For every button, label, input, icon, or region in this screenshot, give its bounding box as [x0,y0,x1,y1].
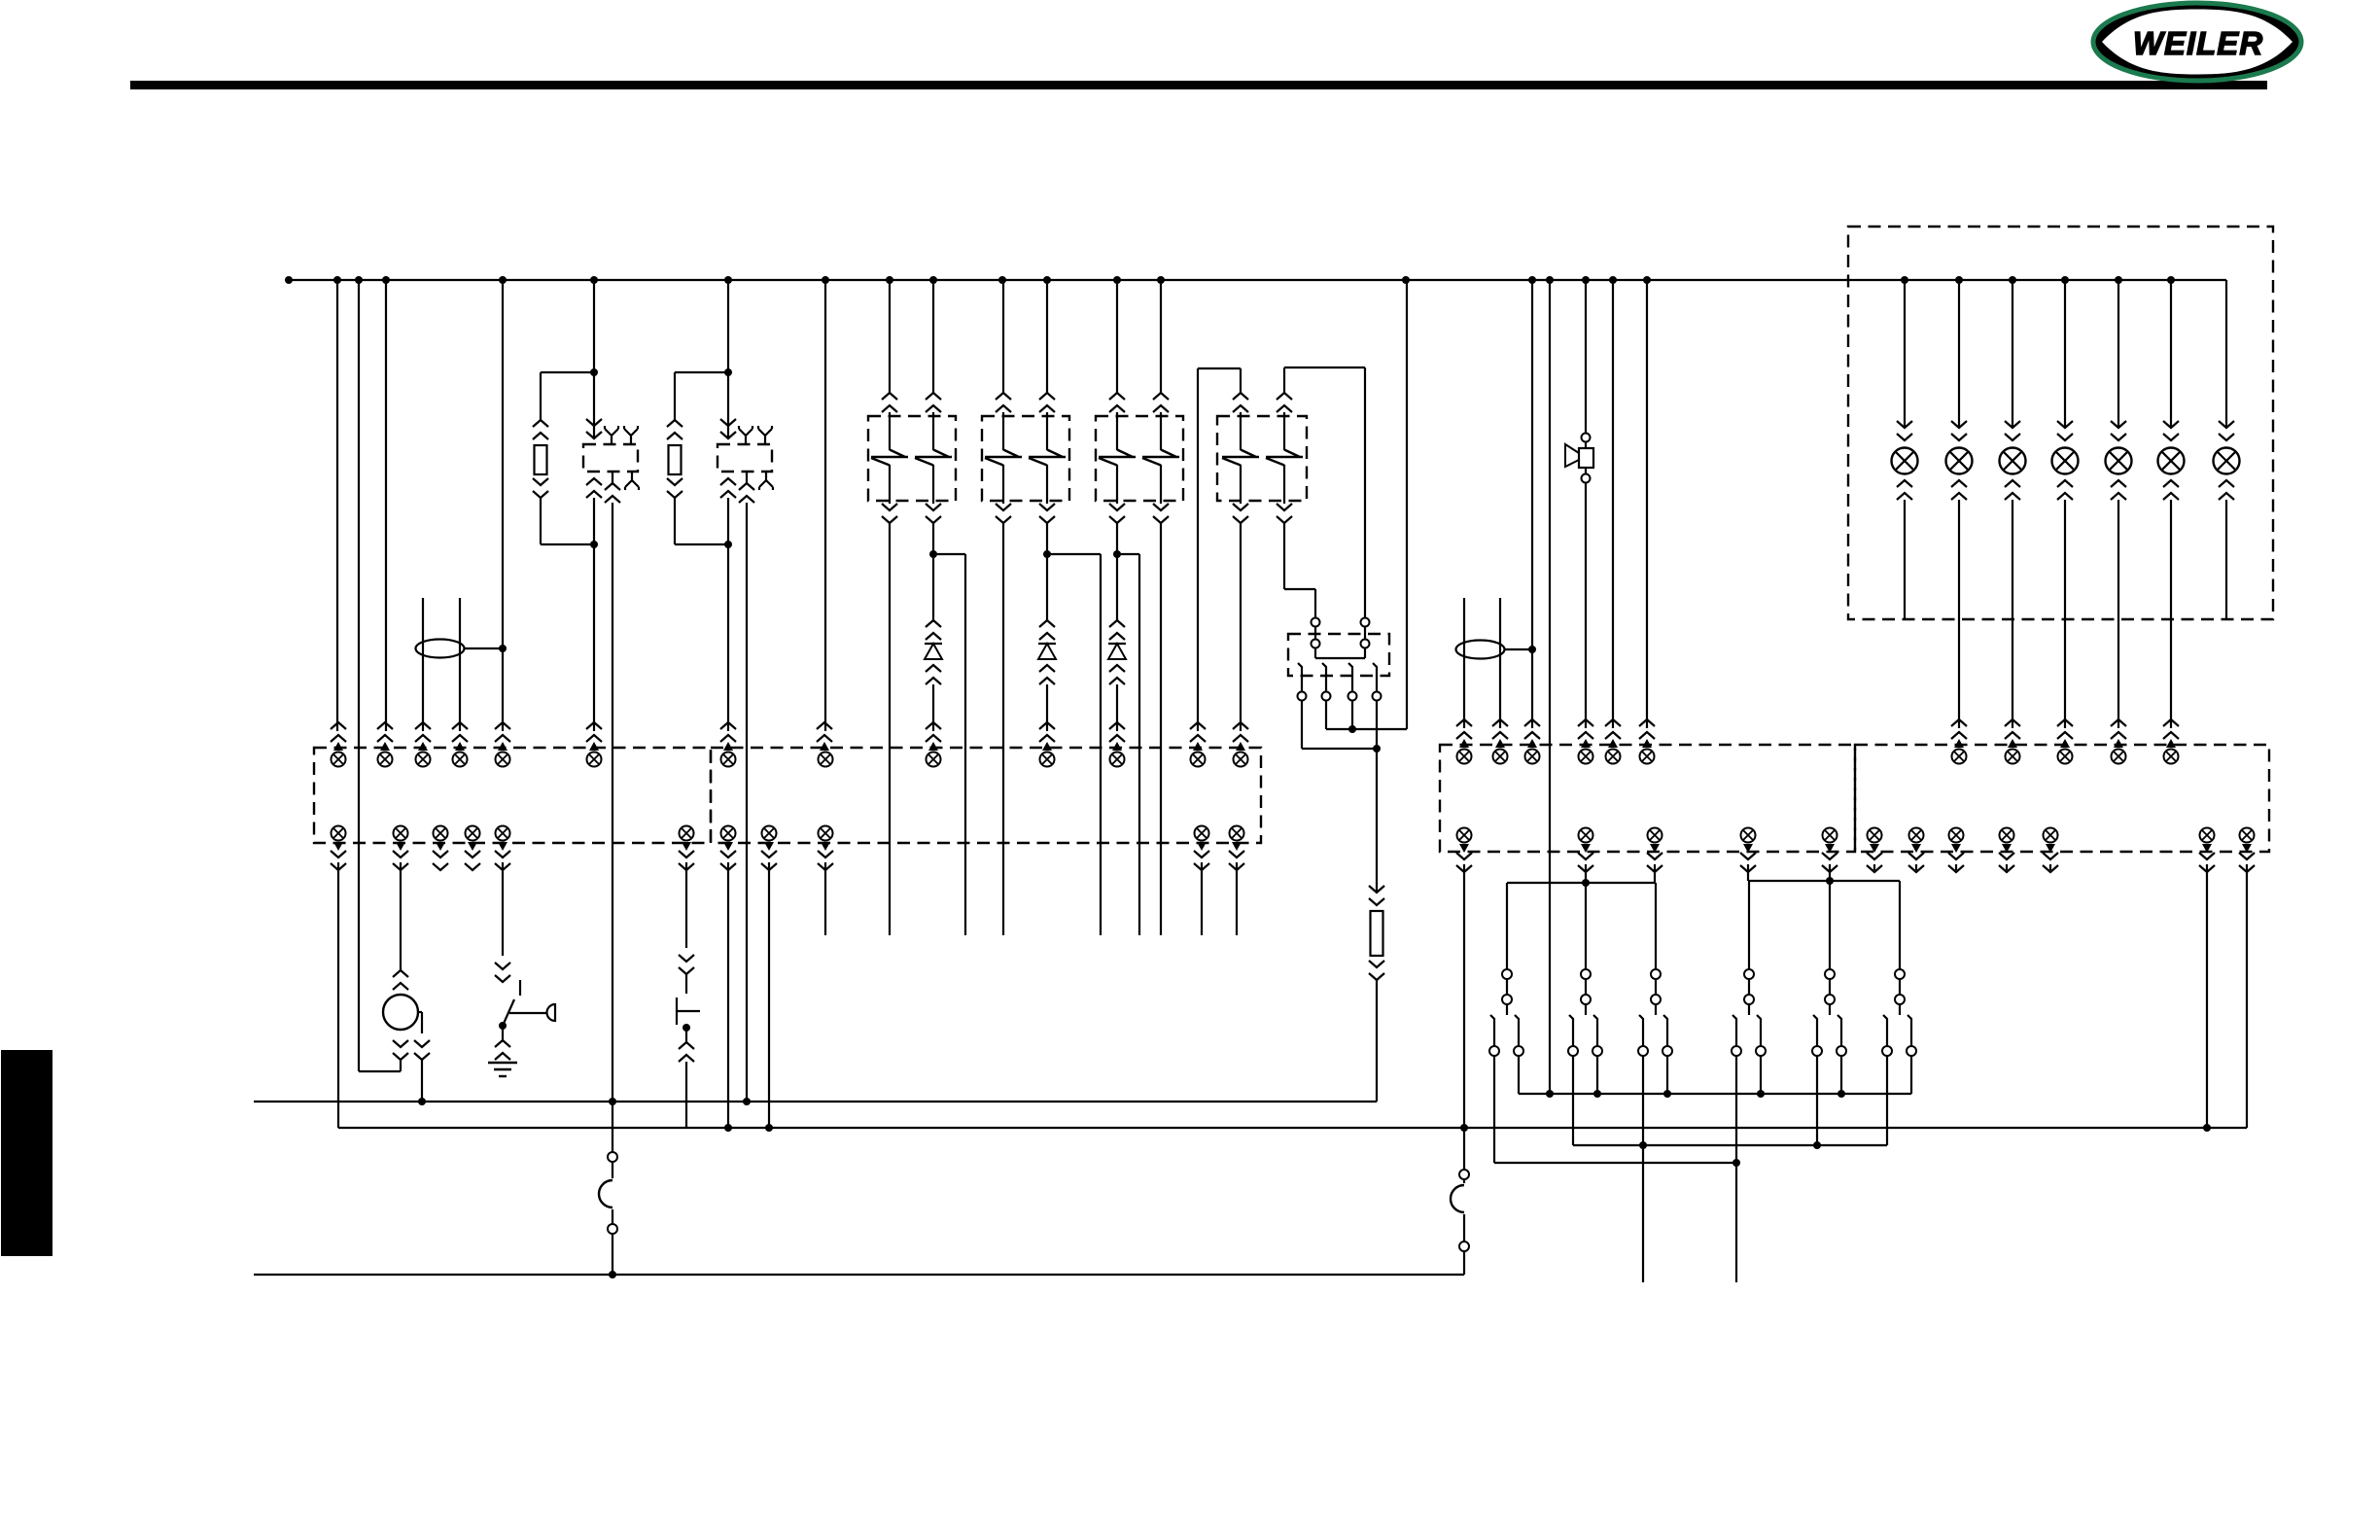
lamp L6 [2170,280,2172,428]
R1 bottom loop [541,543,594,545]
connector A top pin x=517 [496,752,510,767]
connector D bottom pin x=1971 [1909,828,1924,843]
bus junction x=1576 [1528,276,1536,284]
wire pin C-bot5 to switch unit 5 [1825,844,1835,853]
connector C bottom pin x=1506 [1457,828,1472,843]
wire through oval to pin A4 [459,598,461,731]
stub wire pin B-bot4 [1201,862,1203,935]
connector C bottom pin x=1631 [1579,828,1593,843]
connector C top pin x=1631 [1579,750,1593,764]
CB2 right output, split + diode D2 [1046,523,1048,554]
connector B bottom pin x=1272 [1230,826,1244,841]
stub below pin D x=1928 [1873,864,1875,870]
wire pin B-bot2 to bus2 [768,862,770,1128]
connector A top pin x=435 [416,752,431,767]
flasher internal link [1315,657,1365,659]
bus junction x=1194 [1157,276,1165,284]
connector D bottom pin x=1928 [1868,828,1882,843]
long drop wire right [1735,1163,1737,1282]
bus junction x=1659 [1609,276,1617,284]
CB4 right top wire [1283,367,1285,393]
connector D bottom pin x=2064 [2000,828,2014,843]
switch unit1 blades [1493,1056,1495,1163]
ground symbol [488,1062,517,1064]
stub below pin D x=2012 [1955,864,1957,870]
bus corner drop to lamp 7 [2225,280,2227,428]
toggle switch unit 5 [1825,969,1835,979]
bus junction x=1631 [1582,276,1590,284]
connector D top pin x=2233 [2164,750,2179,764]
connector B bottom pin x=849 [819,826,833,841]
flasher link A [1326,728,1407,730]
wire bus to pin C6 [1646,280,1648,728]
toggle switch unit 3 [1651,969,1661,979]
wire bus to pin A2 [385,280,387,731]
connector B top pin x=1232 [1191,752,1206,767]
connector A bottom pin x=486 [466,826,480,841]
connector A top pin x=396 [378,752,393,767]
lower bus 2 [338,1127,2247,1129]
flasher pin x=1416 [1373,663,1377,691]
switch unit3 blades [1642,1056,1644,1282]
circuit breaker box CB3 [1096,416,1183,501]
lamp L4 [2064,280,2066,428]
bus junction x=611 [590,276,598,284]
connector A bottom pin x=348 [332,826,346,841]
toggle switch unit 4 [1744,969,1754,979]
connector D top pin x=2015 [1952,750,1967,764]
connector B top pin x=849 [819,752,833,767]
circuit breaker box CB2 [982,416,1069,501]
connector box C [1440,745,1855,852]
switch rail 4 [1494,1162,1736,1164]
lamp L1 [1904,280,1906,428]
CB4 right bottom wire [1283,523,1285,589]
wire pin B-bot1 to bus2 [727,862,729,1128]
bus junction x=1077 [1043,276,1051,284]
connector box B [711,748,1261,843]
connector B bottom pin x=1236 [1195,826,1209,841]
lower bus 3 [254,1274,1464,1276]
wire pin C-bot4 to switch unit 4 [1743,844,1753,853]
switch common rail 1 [1519,1093,1911,1095]
relay K2 mid pin wire [746,472,748,483]
wire CB4-left loop to pin B6 [1197,368,1199,731]
bus junction x=517 [499,276,507,284]
diode D3 [1108,644,1126,659]
R1 top loop [541,371,594,373]
connector B top pin x=960 [927,752,941,767]
connector B top pin x=1149 [1110,752,1125,767]
connector D top pin x=2070 [2006,750,2020,764]
WEILER logo [2093,3,2301,81]
diode D2 [1038,644,1056,659]
flasher resistor wire [1376,701,1378,892]
marker lamp cluster box [1848,227,2273,619]
connector A bottom pin x=517 [496,826,510,841]
wire bus to oval2 junction [1531,280,1533,649]
motor side terminal wire [418,1011,422,1013]
bus junction x=1446 [1402,276,1410,284]
connector C top pin x=1543 [1493,750,1508,764]
svg-text:WEILER: WEILER [2133,25,2263,61]
circuit breaker box CB1 [868,416,956,501]
connector A bottom pin x=412 [394,826,408,841]
wire through oval to pin A3 [422,598,424,731]
connector D top pin x=2124 [2058,750,2073,764]
bus junction x=2015 [1955,276,1963,284]
wire bus to oval junction [502,280,504,648]
connector A bottom pin x=706 [680,826,694,841]
switch unit5 blades [1816,1056,1818,1145]
resistor R3 [1371,911,1383,956]
switch rail 3 [1573,1144,1887,1146]
fuse F1 [612,1102,613,1152]
connector D top pin x=2179 [2112,750,2126,764]
wire pin to motor [396,842,405,851]
connector B top pin x=1077 [1040,752,1055,767]
wire bus to relay K2 [727,280,729,439]
connector D bottom pin x=2311 [2240,828,2255,843]
connector box D [1855,745,2269,852]
connector C top pin x=1506 [1457,750,1472,764]
switch unit4 blades [1735,1056,1737,1163]
switch blade [503,999,514,1026]
relay K2 box [717,444,772,472]
connector A top pin x=348 [332,752,346,767]
flasher pin3 wire [1351,701,1353,729]
fuse F2 [1463,1128,1465,1170]
key switch S1 [519,980,521,996]
resistor R1 [535,445,547,474]
lamp L7 [2219,421,2234,440]
oval sensor 2 [1456,641,1505,659]
wire bus to relay K1 [593,280,595,439]
flasher pin x=1339 [1298,663,1302,691]
wire pin A-bot1 to lower bus 2 [333,842,343,851]
bus junction x=849 [822,276,829,284]
CB3 right output [1160,523,1162,935]
oval2 output wire [1504,648,1532,650]
connector C bottom pin x=1798 [1741,828,1756,843]
connector C bottom pin x=1702 [1648,828,1662,843]
flasher pin x=1364 [1322,663,1326,691]
bus junction x=347 [333,276,341,284]
connector B bottom pin x=791 [762,826,777,841]
bus junction x=1031 [998,276,1006,284]
motor M1 [383,995,418,1030]
bus junction x=369 [355,276,363,284]
wire to flasher right pin [1364,367,1366,617]
wire bus to switch rail (pass-through) [1549,280,1551,1094]
flasher top-left terminal [1312,618,1320,627]
connector C bottom pin x=1882 [1823,828,1837,843]
switch unit6 blades [1886,1056,1888,1145]
resistor R2 [669,445,682,474]
bus junction x=749 [724,276,732,284]
wire through oval2 to pin C1 [1463,598,1465,728]
toggle switch unit 6 [1895,969,1905,979]
bus junction x=1149 [1113,276,1121,284]
main power bus [289,279,2226,281]
wire bus to pin C5 [1612,280,1614,728]
wire CB4 to pin B7 [1240,523,1242,731]
connector A bottom pin x=453 [434,826,448,841]
wire K2 to pin B1 [727,498,729,731]
CB4 left top wire [1240,368,1242,393]
stub pin A-bot4 [468,842,477,851]
wire pin to start button [682,842,691,851]
lamp L3 [2012,280,2013,428]
wire pass-through col 369 (motor return) [358,280,360,1071]
wire pin C-bot3 to switch unit 3 [1650,844,1660,853]
toggle switch unit 1 [1502,969,1512,979]
circuit breaker box CB4 [1217,416,1307,501]
connector B bottom pin x=749 [721,826,736,841]
flasher pin1 wire [1301,701,1303,749]
R2 top loop [675,371,728,373]
switch rail group1 top [1507,882,1656,884]
wire pin to switch rail group1 [1581,844,1591,853]
bus junction x=1694 [1643,276,1651,284]
connector box A [314,748,711,843]
connector A top pin x=611 [587,752,602,767]
CB3 left output, split + diode D3 [1116,523,1118,554]
diode D1 [925,644,942,659]
oval sensor 1 [416,640,465,658]
wire through oval2 to pin C2 [1499,598,1501,728]
connector D bottom pin x=2012 [1949,828,1964,843]
bus junction x=297 [285,276,293,284]
CB2 left output [1002,523,1004,935]
connector C top pin x=1659 [1606,750,1621,764]
switch rail group2 top [1749,880,1900,882]
CB1 left output [889,523,891,935]
bus junction x=2070 [2009,276,2016,284]
lower bus 1 [254,1101,1377,1102]
oval 1 output wire [464,647,503,649]
wire K1 to pin A6 [593,498,595,731]
bus junction x=2179 [2115,276,2122,284]
switch actuator link [509,1012,547,1014]
stub pin A-bot3 [436,842,445,851]
header rule [130,81,2267,89]
bus junction x=397 [382,276,390,284]
stub wire pin B-bot3 [824,862,826,935]
stub below pin D x=2064 [2006,864,2008,870]
bus junction x=1959 [1901,276,1908,284]
connector B top pin x=749 [721,752,736,767]
wire bus to pin B2 [824,280,826,731]
stub wire pin B-bot5 [1236,862,1238,935]
connector D bottom pin x=2109 [2044,828,2058,843]
flasher pin x=1391 [1348,663,1352,691]
R2 bottom loop [675,543,728,545]
pushbutton S2 [676,997,678,1025]
connector A top pin x=473 [453,752,468,767]
stub below pin D x=2109 [2049,864,2051,870]
toggle switch unit 2 [1581,969,1591,979]
connector B top pin x=1276 [1234,752,1248,767]
connector C top pin x=1576 [1525,750,1540,764]
stub below pin D x=1971 [1915,864,1917,870]
wire bus to flasher link A [1406,280,1408,729]
wire pin D to bus2 [2202,844,2212,853]
lamp L2 [1958,280,1960,428]
horn H1 [1585,280,1587,433]
flasher link B [1302,748,1377,750]
bus junction x=1594 [1546,276,1554,284]
connector C top pin x=1694 [1640,750,1655,764]
bus junction x=915 [886,276,893,284]
switch unit2 blades [1572,1056,1574,1145]
wire pin to key switch [498,842,507,851]
wire pin C-bot1 to fuse F2 [1459,844,1469,853]
motor return corner [359,1070,401,1072]
bus junction x=2124 [2061,276,2069,284]
flasher top-right terminal [1361,618,1370,627]
CB1 right output, split + diode D1 [932,523,934,554]
bus junction x=960 [929,276,937,284]
lamp L5 [2117,280,2119,428]
flasher pin2 wire [1325,701,1327,729]
wire pin D to bus2 end [2242,844,2252,853]
black sidebar tab [1,1050,52,1256]
wire bus to pin A1 [336,280,338,731]
bus junction x=2233 [2167,276,2175,284]
connector D bottom pin x=2270 [2200,828,2215,843]
relay K1 box [583,444,638,472]
relay K1 mid pin wire [612,472,613,483]
